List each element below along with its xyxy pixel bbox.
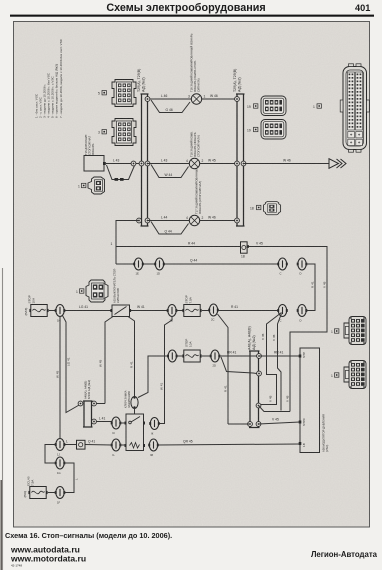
- wire Q44 row: [116, 263, 278, 265]
- wire to connector 1J: [64, 444, 76, 446]
- svg-text:Схемы электрооборудования: Схемы электрооборудования: [106, 2, 265, 14]
- junction on left bus row2: [139, 161, 144, 166]
- label fuse STOP: [24, 295, 36, 315]
- wire to fuse STOP no2: [176, 310, 183, 312]
- connector face 19A right-mid: [261, 96, 286, 116]
- connector left of relay top: [111, 417, 122, 429]
- wire W46 lamp to right bus: [202, 98, 237, 100]
- connector face A36-2 right-low lower: [344, 361, 366, 389]
- stop light switch A25: [110, 305, 131, 317]
- stop light box T15: [84, 156, 104, 172]
- label interlock: [124, 390, 132, 408]
- label fuse ECU-B: [23, 476, 35, 497]
- junction lower bus bottom-right: [256, 422, 261, 427]
- wire interlock to relay: [134, 409, 136, 415]
- wire LG41 to stop switch: [65, 310, 111, 312]
- junction left bus bottom: [137, 218, 142, 223]
- header rule: [10, 15, 374, 17]
- wire fuse to interlock: [138, 356, 168, 398]
- wire R41 from switch right corner down: [128, 317, 135, 397]
- junction on left bus row1: [145, 97, 150, 102]
- junction right bus row2 right line: [241, 161, 246, 166]
- junction right bus bottom: [235, 218, 240, 223]
- splice dip with joint connector pins: [107, 165, 135, 180]
- wire A48 top-right jog: [96, 403, 105, 405]
- footer links: [10, 545, 86, 568]
- junction A48 top-left: [78, 401, 83, 406]
- fuse ECU-B: [28, 487, 47, 499]
- wire QR45 relay to VSC unit: [158, 444, 300, 445]
- wire lower bus bottom to R41 branch: [228, 423, 250, 425]
- wire junction to V pair: [259, 406, 291, 412]
- wire into relay: [120, 422, 126, 424]
- junction on right bus row1: [235, 97, 240, 102]
- lamp T18 rear combination light: [189, 158, 199, 168]
- connector face below T15: [88, 177, 105, 194]
- wire W41 switch to connector: [131, 310, 168, 312]
- junction A48 bottom-right: [92, 419, 97, 424]
- wire V45 to right corner: [249, 247, 327, 412]
- wire relay bottom left: [120, 444, 126, 446]
- wire jog down right: [64, 463, 74, 493]
- junction bus J/B left (T29): [141, 94, 149, 226]
- junction lower bus mid-right: [256, 403, 261, 408]
- label A36 VSC modulator: [322, 414, 330, 452]
- wire W41 from connector 2E down: [159, 316, 172, 424]
- connector right of relay bottom: [148, 439, 159, 451]
- wire bottom-left chain: [85, 444, 112, 447]
- connector 1J: [55, 439, 66, 451]
- splice dip G46: [151, 100, 190, 113]
- wire L43 T15 to left bus: [106, 163, 142, 165]
- label fuse STOP lower: [185, 339, 193, 347]
- connector pair on R41 wire: [277, 305, 288, 317]
- junction small left of bus: [131, 161, 136, 166]
- connector left of relay bottom: [111, 439, 122, 451]
- svg-text:401: 401: [355, 3, 370, 13]
- label E3: [98, 130, 106, 135]
- fuse STOP lower: [182, 350, 201, 362]
- big connector ECU top-right: [340, 64, 369, 152]
- wire W45 lamp to right bus: [200, 163, 237, 165]
- label T18 rear combination light: [190, 131, 201, 157]
- connector left of lower fuse: [167, 350, 178, 362]
- label 19A: [247, 104, 258, 109]
- lamp T16 rear combination light (stop lamp): [191, 94, 201, 104]
- connector 2C: [208, 304, 219, 316]
- page link arrow: [329, 159, 346, 169]
- wire from left bus down-left: [116, 221, 139, 265]
- label big connector: [313, 104, 321, 109]
- svg-text:Легион-Автодата: Легион-Автодата: [311, 550, 378, 559]
- wire LG41 branch down: [63, 316, 81, 413]
- inline square connector: [77, 440, 86, 449]
- wire RR41 to lower bus: [220, 355, 260, 357]
- junction lower bus bottom-left: [248, 422, 253, 427]
- wire fuse to connector 2C: [202, 310, 209, 312]
- wire to ECU-B fuse: [48, 492, 56, 494]
- A48 block bus: [83, 401, 93, 427]
- connector face 18 mid: [264, 202, 281, 215]
- connector face E5 top-left: [112, 80, 136, 107]
- node tee V45 wire: [116, 246, 241, 248]
- wire Q44 turn down to R41 row: [306, 264, 315, 311]
- connector right of relay top: [149, 418, 160, 430]
- wire R41 up to Q44 row: [306, 310, 315, 312]
- splice dip P: [221, 357, 257, 374]
- wire fuse to connector right: [202, 355, 211, 357]
- label 19B: [247, 127, 258, 132]
- wire RR41 bus to VSC unit: [259, 355, 301, 357]
- header title: [106, 2, 370, 14]
- junction dip rejoin: [257, 371, 262, 376]
- pin of T15: [103, 162, 106, 165]
- branch diagonal to lower bus feed: [218, 314, 229, 424]
- branch V pair down from connector pair: [261, 313, 282, 405]
- connector 1G: [55, 457, 66, 469]
- label A25 stop light switch: [113, 268, 121, 303]
- junction bus lower (T29): [249, 351, 260, 428]
- label T17 rear combination light: [195, 168, 203, 214]
- label E5: [98, 91, 106, 96]
- svg-text:www.motordata.ru: www.motordata.ru: [10, 554, 86, 564]
- label fuse STOP no2: [185, 295, 193, 303]
- connector face A36-1 right-low: [344, 317, 366, 345]
- wire L43 bus to lamp T18: [148, 163, 190, 165]
- label T16 rear combination light: [190, 33, 201, 92]
- VSC brake actuator A36: [299, 348, 320, 453]
- connector 1F: [55, 487, 66, 499]
- splice dip W44: [151, 165, 189, 178]
- wire W45 from connector 1H down: [59, 317, 61, 439]
- connector 2E: [167, 305, 178, 317]
- label 18: [250, 205, 261, 210]
- wire V45 bus to VSC unit: [259, 422, 301, 424]
- node label T29(A) T29(B) right bus: [233, 69, 242, 92]
- label A25 connector: [76, 289, 84, 294]
- fuse STOP no2: [182, 305, 201, 317]
- svg-text:Схема 16. Стоп–сигналы (модел: Схема 16. Стоп–сигналы (модели до 10. 20…: [5, 531, 172, 540]
- wire L46 bus-left to lamp T16: [148, 98, 192, 100]
- junction bus J/B right (T29): [236, 94, 245, 226]
- svg-text:42-1748: 42-1748: [11, 564, 22, 568]
- wire S jog down: [45, 445, 56, 464]
- junction right bus bottom row3: [145, 218, 150, 223]
- label T15 connector: [78, 183, 86, 188]
- wire L44 bus to lamp T17: [148, 220, 190, 222]
- connector 1H: [55, 305, 66, 317]
- label A48: [84, 380, 92, 399]
- splice dip Q44: [151, 222, 189, 235]
- connector face E3 top-left lower: [112, 119, 136, 146]
- label A36-1: [331, 329, 339, 334]
- junction A48 top-right: [92, 401, 97, 406]
- connector face A25: [86, 280, 108, 302]
- stop light relay box: [125, 414, 146, 451]
- lamp T17 rear combination light: [189, 215, 199, 225]
- connector pair on Q44 wire right: [277, 258, 288, 270]
- wire A48 to relay connector: [96, 421, 112, 423]
- label A36-2: [331, 373, 339, 378]
- connector pair on Q44 wire left: [133, 258, 144, 270]
- wire fuse to connector 1H: [49, 310, 55, 312]
- junction on right bus row2: [145, 161, 150, 166]
- node label T29(A) T29(B) left bus: [137, 69, 146, 92]
- wire W46 to page arrow: [244, 163, 330, 165]
- connector 2D: [210, 350, 221, 362]
- connector face 19B right-mid lower: [261, 120, 286, 140]
- wire stub fuse left: [177, 355, 184, 357]
- junction right bus row2 left line: [235, 161, 240, 166]
- junction lower bus top: [257, 354, 262, 359]
- label T15 additional stop light: [84, 134, 95, 155]
- fuse STOP 10A: [29, 305, 48, 317]
- wire R41 to connector pair: [218, 310, 278, 312]
- interlock connector: [131, 396, 138, 408]
- wire W46 lamp to right bus bottom: [200, 220, 237, 222]
- wire W45 from switch down: [105, 317, 113, 404]
- scan edge artifact left: [2, 268, 4, 570]
- inline connector on V45 wire: [241, 242, 250, 259]
